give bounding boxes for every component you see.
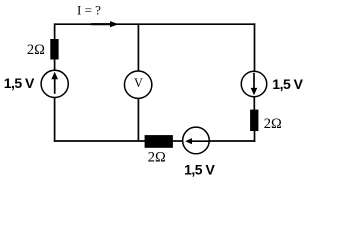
wire top: left corner to right corner bbox=[55, 23, 256, 25]
svg-text:2Ω: 2Ω bbox=[148, 150, 166, 166]
wire right: top-right corner down to source S2 bbox=[254, 23, 256, 71]
wire middle: top junction down to voltmeter bbox=[137, 24, 139, 71]
current source S3 1,5V (bottom, arrow left) bbox=[183, 127, 210, 154]
svg-text:I = ?: I = ? bbox=[77, 3, 101, 18]
svg-text:1,5 V: 1,5 V bbox=[272, 76, 303, 92]
svg-text:V: V bbox=[134, 76, 143, 90]
resistor R1 2ohm (left vertical) bbox=[50, 39, 58, 60]
current arrow I on top wire bbox=[91, 21, 119, 27]
wire left: top corner down to resistor R1 bbox=[54, 23, 56, 40]
svg-text:1,5 V: 1,5 V bbox=[184, 162, 215, 178]
wire: R2 down to bottom-right corner bbox=[254, 131, 256, 142]
svg-text:1,5 V: 1,5 V bbox=[4, 75, 35, 91]
svg-text:2Ω: 2Ω bbox=[264, 116, 282, 132]
wire bottom-left: corner to resistor R3 bbox=[54, 140, 145, 142]
current source S2 1,5V (right, arrow down) bbox=[241, 71, 267, 97]
wire: R1 to source S1 bbox=[54, 59, 56, 71]
wire: R3 to source S3 bbox=[173, 140, 183, 142]
current source S1 1,5V (left, arrow up) bbox=[41, 70, 68, 97]
wire: S1 down to bottom-left corner bbox=[54, 98, 56, 142]
voltmeter U1 bbox=[124, 71, 151, 98]
wire: voltmeter down to bottom junction bbox=[137, 98, 139, 141]
wire: S2 to resistor R2 bbox=[253, 97, 255, 111]
resistor R2 2ohm (right vertical) bbox=[250, 110, 258, 131]
wire: S3 to bottom-right corner bbox=[209, 140, 255, 142]
svg-text:2Ω: 2Ω bbox=[27, 42, 45, 58]
resistor R3 2ohm (bottom horizontal) bbox=[145, 135, 173, 148]
